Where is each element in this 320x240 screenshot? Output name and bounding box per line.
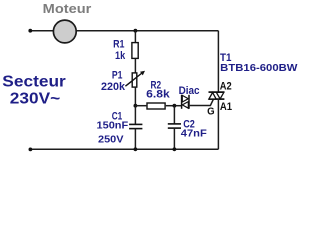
wire: vertical down to triac A2	[217, 31, 219, 92]
node A: top rail / R1 junction	[134, 29, 138, 33]
node: secteur bottom terminal	[29, 148, 33, 152]
node: C1 bottom junction	[134, 147, 138, 151]
wire: node B to R2	[135, 105, 146, 107]
svg-text:A2: A2	[220, 81, 232, 93]
svg-text:Moteur: Moteur	[43, 1, 92, 16]
node B: P1 / R2 / C1 junction	[134, 104, 138, 108]
svg-text:6.8k: 6.8k	[146, 89, 171, 101]
capacitor C1	[129, 124, 142, 128]
svg-text:220k: 220k	[101, 81, 126, 93]
wire: C2 to bottom rail	[173, 128, 175, 149]
wire: top rail from secteur terminal to triac corner	[30, 30, 218, 32]
node: secteur top terminal	[28, 29, 32, 33]
svg-text:1k: 1k	[115, 50, 126, 62]
potentiometer P1	[125, 71, 145, 87]
svg-text:P1: P1	[112, 70, 123, 82]
resistor R1	[132, 43, 138, 59]
resistor R2	[147, 103, 165, 109]
svg-text:BTB16-600BW: BTB16-600BW	[220, 62, 297, 74]
svg-text:Secteur: Secteur	[2, 74, 66, 91]
node C: R2 / diac / C2 junction	[173, 104, 177, 108]
wire: R2 to diac	[166, 105, 182, 107]
svg-text:47nF: 47nF	[181, 127, 208, 139]
svg-text:230V~: 230V~	[10, 91, 60, 108]
wire: triac A1 to bottom rail	[217, 99, 219, 149]
svg-text:A1: A1	[220, 101, 232, 113]
wire: diac to triac gate	[190, 99, 214, 105]
svg-text:R1: R1	[113, 38, 124, 50]
wire: R1 to P1	[134, 59, 136, 73]
wire: node B to C1	[134, 106, 136, 125]
svg-text:G: G	[207, 106, 215, 118]
wire: node C to C2	[173, 106, 175, 124]
capacitor C2	[168, 124, 181, 128]
diac D1	[182, 95, 189, 109]
triac T1	[209, 92, 225, 99]
motor M	[53, 20, 76, 43]
svg-text:250V: 250V	[98, 133, 124, 145]
wire: node A to R1	[134, 31, 136, 43]
svg-text:150nF: 150nF	[97, 120, 129, 132]
wire: P1 to node B	[134, 87, 136, 106]
svg-text:Diac: Diac	[179, 85, 200, 97]
node: C2 bottom junction	[173, 147, 177, 151]
wire: C1 to bottom rail	[134, 129, 136, 150]
wire: bottom rail	[30, 148, 218, 150]
